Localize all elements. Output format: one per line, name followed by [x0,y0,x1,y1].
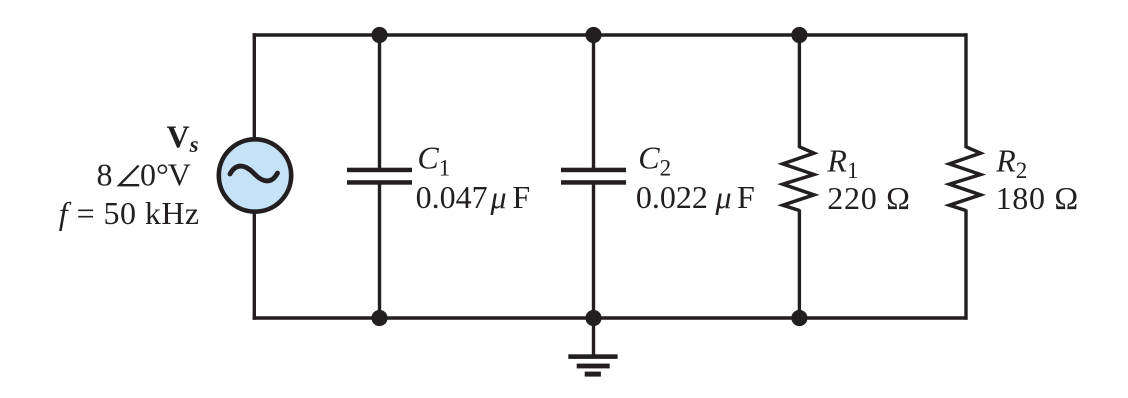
svg-text:R1: R1 [826,143,858,183]
svg-text:C2: C2 [638,140,671,181]
label source value 8 angle 0 deg V [97,156,191,192]
svg-text:C1: C1 [417,140,450,181]
node junction dot bottom R1 [791,310,807,326]
wire C2 branch top [592,33,595,169]
svg-text:F: F [737,179,755,215]
svg-text:μ: μ [715,179,732,215]
node junction dot top R1 [791,27,807,43]
svg-text:Vs: Vs [167,118,199,157]
wire R1 branch top [798,33,801,148]
wire source branch top [253,33,256,141]
svg-text:0.047: 0.047 [416,179,488,215]
wire R2 branch top [964,33,967,148]
node junction dot top C1 [371,27,387,43]
wire bottom rail [253,316,967,319]
wire source branch bottom [253,210,256,320]
wire R1 branch bottom [798,210,801,320]
label C1 value 0.047 uF [416,179,531,215]
svg-text:0.022: 0.022 [636,179,708,215]
resistor R2 zigzag [949,147,980,211]
node junction dot bottom C2 (ground node) [585,310,601,326]
capacitor C1 plates [347,168,412,185]
wire C1 branch top [378,33,381,169]
svg-text:0°: 0° [140,156,169,192]
ac source Vs circle [219,139,291,211]
svg-text:8: 8 [97,156,113,192]
node junction dot top C2 [585,27,601,43]
wire top rail [253,33,967,36]
node junction dot bottom C1 [371,310,387,326]
wire R2 branch bottom [964,210,967,320]
svg-text:V: V [168,156,191,192]
wire ground stem [592,318,595,357]
capacitor C2 plates [561,168,626,185]
svg-text:f = 50 kHz: f = 50 kHz [59,195,200,231]
wire C2 branch bottom [592,183,595,320]
label C2 value 0.022 uF [636,179,755,215]
resistor R1 zigzag [783,147,814,211]
wire C1 branch bottom [378,183,381,320]
svg-text:R2: R2 [995,143,1027,183]
svg-text:μ: μ [490,179,507,215]
svg-text:220 Ω: 220 Ω [827,180,910,216]
svg-text:F: F [512,179,530,215]
svg-text:180 Ω: 180 Ω [996,180,1079,216]
ground symbol [568,354,617,376]
